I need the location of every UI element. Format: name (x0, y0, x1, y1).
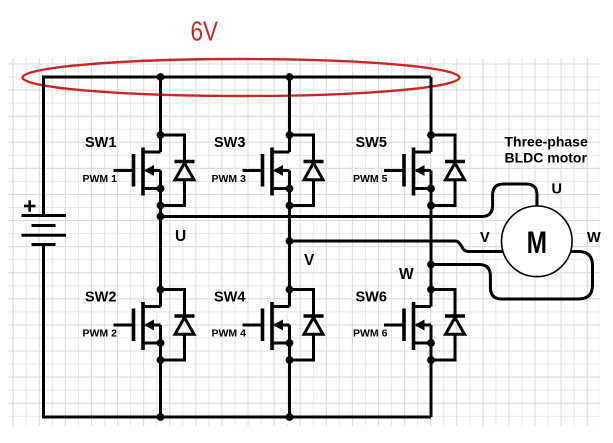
diode D1 (freewheeling) (161, 135, 195, 206)
diode D2 (freewheeling) (161, 290, 195, 361)
junction dots leg 2 (286, 73, 294, 421)
wire: SW6 source to bottom rail (430, 325, 433, 417)
diode D5 (freewheeling) (431, 135, 465, 206)
svg-text:M: M (527, 224, 547, 260)
wire: SW1 source to phase U node to SW2 drain (159, 171, 162, 307)
svg-text:V: V (480, 230, 490, 246)
svg-text:PWM 3: PWM 3 (212, 173, 247, 185)
transistor SW5 (384, 148, 431, 196)
wire: SW3 source to phase V node to SW4 drain (288, 171, 291, 307)
svg-text:U: U (175, 228, 186, 245)
wire: battery negative lead (42, 245, 45, 419)
transistor SW4 (243, 302, 290, 350)
svg-text:SW3: SW3 (214, 135, 245, 151)
transistor SW1 (114, 148, 161, 196)
battery plus sign (24, 200, 36, 211)
wire: leg 1 top rail to SW1 drain (159, 77, 162, 152)
svg-text:PWM 1: PWM 1 (83, 173, 118, 185)
wire: leg 3 top rail to SW5 drain (430, 77, 433, 152)
wire: leg 2 top rail to SW3 drain (288, 77, 291, 152)
label: Three-phase BLDC motor (505, 134, 588, 166)
node U (phase U junction) (157, 213, 165, 221)
transistor SW3 (243, 148, 290, 196)
svg-text:W: W (399, 266, 414, 283)
svg-text:6V: 6V (191, 15, 219, 46)
junction dots leg 1 (157, 73, 165, 421)
battery BT1 (6V, 3 cells) (22, 216, 67, 245)
svg-text:SW6: SW6 (356, 290, 387, 306)
svg-text:PWM 5: PWM 5 (353, 173, 388, 185)
svg-text:PWM 4: PWM 4 (212, 328, 247, 340)
wire: SW2 source to bottom rail (159, 325, 162, 417)
junction dots leg 3 (427, 131, 435, 364)
transistor SW6 (384, 302, 431, 350)
svg-text:W: W (587, 230, 601, 246)
wire: bottom return rail (44, 416, 432, 419)
supply annotation ellipse (6V net highlight) (23, 59, 460, 96)
diode D6 (freewheeling) (431, 290, 465, 361)
wire: +6V top rail (44, 76, 432, 79)
svg-text:SW2: SW2 (85, 290, 116, 306)
wire: phase W to motor (431, 252, 593, 300)
transistor SW2 (114, 302, 161, 350)
svg-text:U: U (552, 182, 562, 198)
node W (phase W junction) (427, 261, 435, 269)
svg-text:PWM 2: PWM 2 (83, 328, 118, 340)
wire: battery positive lead (42, 76, 45, 216)
node V (phase V junction) (286, 237, 294, 245)
svg-text:BLDC motor: BLDC motor (505, 150, 588, 166)
svg-text:SW1: SW1 (85, 135, 116, 151)
svg-text:PWM 6: PWM 6 (353, 328, 388, 340)
svg-text:SW5: SW5 (356, 135, 387, 151)
diode D4 (freewheeling) (290, 290, 324, 361)
wire: phase V to motor (290, 241, 504, 252)
svg-text:V: V (304, 252, 315, 269)
motor M1 (BLDC) (502, 206, 573, 277)
wire: phase U to motor (161, 184, 538, 217)
svg-text:SW4: SW4 (214, 290, 245, 306)
svg-text:Three-phase: Three-phase (505, 134, 588, 150)
wire: SW4 source to bottom rail (288, 325, 291, 417)
wire: SW5 source to phase W node to SW6 drain (430, 171, 433, 307)
diode D3 (freewheeling) (290, 135, 324, 206)
